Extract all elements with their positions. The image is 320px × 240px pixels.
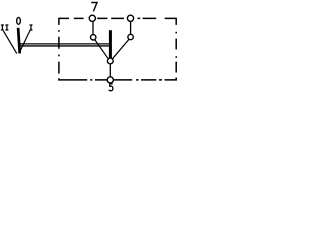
pivot node circle bbox=[107, 58, 113, 64]
label 5 bbox=[109, 84, 113, 91]
contact L spring wire to pivot node bbox=[95, 40, 109, 59]
movable contact bar (thick) bbox=[109, 30, 112, 58]
linkage (mechanical coupling double line) bbox=[18, 44, 109, 46]
contact L circle bbox=[91, 35, 96, 40]
enclosure left border bbox=[58, 18, 60, 81]
label 0 bbox=[17, 17, 21, 24]
lever position I arm bbox=[19, 30, 30, 54]
enclosure bottom border bbox=[59, 79, 176, 81]
contact R circle bbox=[128, 34, 133, 39]
wire right terminal to contact R bbox=[130, 21, 132, 35]
label I bbox=[30, 25, 33, 30]
label 7 bbox=[91, 3, 97, 12]
enclosure right border bbox=[175, 18, 177, 81]
enclosure top border bbox=[59, 17, 176, 19]
wire terminal 7 to contact L bbox=[92, 21, 94, 35]
contact R spring wire to pivot node bbox=[112, 39, 129, 59]
lever position II arm bbox=[3, 31, 16, 54]
lever knob (position 0, thick) bbox=[18, 28, 20, 54]
terminal 5 circle bbox=[107, 77, 113, 83]
terminal 7 circle bbox=[89, 15, 95, 21]
label II bbox=[1, 25, 8, 30]
right terminal circle (unlabelled) bbox=[127, 15, 133, 21]
wire pivot node to terminal 5 bbox=[109, 63, 111, 77]
